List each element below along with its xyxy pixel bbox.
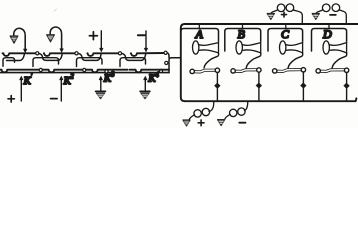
plug tip triangle 1 <box>10 36 18 43</box>
wire row2 contact segment 1 <box>0 70 41 73</box>
contact diamond lever A <box>215 83 221 89</box>
plug A <box>193 41 219 54</box>
cord plug C to lever C <box>288 54 303 68</box>
arrowhead key K2 <box>60 76 63 80</box>
key plug arrow hook 1 <box>14 28 25 49</box>
contact stem lever B <box>258 72 260 101</box>
plug tip triangle 2 <box>47 35 55 42</box>
label plus cell3 <box>89 32 97 40</box>
arrowhead key K3 <box>99 76 102 80</box>
jack frame staple 3 <box>77 58 103 67</box>
generator plus bottom <box>189 101 214 119</box>
wire row1 contact line segment 3 <box>87 53 120 56</box>
svg-text:C: C <box>281 27 290 41</box>
bus tick jack D <box>328 24 330 29</box>
battery arrow top plus <box>267 13 274 19</box>
jack box C <box>268 29 303 52</box>
contact stem lever C <box>302 72 304 101</box>
jack frame staple 1 <box>3 58 15 67</box>
lever D <box>316 68 349 73</box>
jack frame staple 2 <box>33 58 59 67</box>
bus tick jack B <box>242 24 244 29</box>
arrowhead key K4 <box>144 76 147 80</box>
wire right block left vertical <box>181 28 185 101</box>
contact circle row2 terminal 3 <box>105 70 108 73</box>
contact circle row2 terminal 1 <box>39 68 42 71</box>
svg-text:D: D <box>322 27 332 41</box>
key K4 stem arrow <box>144 80 146 92</box>
jack box D <box>312 29 347 52</box>
battery arrow minus cell4 <box>145 31 147 48</box>
bus tick jack C <box>285 24 287 29</box>
wire bottom bus <box>185 98 357 101</box>
cord plug D to lever D <box>332 54 347 68</box>
arrowhead hook 2 <box>60 49 63 53</box>
plug C <box>280 41 303 54</box>
plug D <box>323 41 347 54</box>
label minus bottom <box>239 122 245 124</box>
jack frame staple 4 <box>120 58 146 67</box>
key K3 stem arrow <box>100 80 102 92</box>
generator plus top <box>271 4 302 24</box>
plug B <box>236 41 261 54</box>
bus tick jack A <box>198 24 200 29</box>
svg-text:A: A <box>195 27 204 41</box>
wire row1 end corner into tee <box>167 53 169 58</box>
wire row1 blade 3 <box>78 54 101 61</box>
wire row2 contact segment 4 <box>130 70 169 73</box>
contact stem lever D <box>346 73 348 101</box>
battery arrow plus cell3 <box>100 31 102 48</box>
ground symbol K4 <box>140 90 150 92</box>
contact circle terminal 4 <box>164 51 167 54</box>
node junction circle <box>165 61 168 64</box>
battery arrow bottom minus <box>218 120 225 126</box>
wire row1 blade 2 <box>39 54 62 61</box>
battery arrow top minus <box>312 13 319 19</box>
contact circle terminal 3 <box>118 52 121 55</box>
arrowhead key K1 <box>20 76 23 80</box>
lever C <box>273 68 306 74</box>
wire top bus <box>181 24 358 28</box>
svg-text:4: 4 <box>155 71 159 79</box>
arrowhead cell3 <box>100 48 103 52</box>
contact circle terminal 2 <box>75 52 78 55</box>
label plus top <box>282 12 287 17</box>
contact stem lever A <box>216 73 218 101</box>
stray mark <box>54 9 57 11</box>
arrowhead cell4 <box>144 48 147 52</box>
lever A <box>190 68 220 74</box>
svg-text:B: B <box>238 27 246 41</box>
wire row1 blade 1 <box>7 55 25 61</box>
label plus bottom <box>198 120 204 126</box>
lever B <box>231 68 261 73</box>
wire row1 blade 4 <box>122 54 146 61</box>
generator minus top <box>316 4 346 24</box>
ground symbol K3 <box>96 90 106 92</box>
svg-text:2: 2 <box>70 73 74 81</box>
svg-text:3: 3 <box>110 71 115 79</box>
contact diamond lever B <box>256 83 262 89</box>
generator minus bottom <box>225 101 248 119</box>
label minus cell4 <box>138 34 145 36</box>
label minus K2 <box>51 98 58 100</box>
wire row1 contact line segment 4 <box>131 53 165 56</box>
wire row1 contact line segment 1 <box>3 53 38 56</box>
wire row2 contact segment 3 <box>86 70 127 73</box>
contact circle row2 terminal 2 <box>83 68 86 71</box>
cord plug A to lever A <box>204 54 219 68</box>
jack box B <box>225 29 261 52</box>
wire row2 contact segment 2 <box>43 70 84 73</box>
label plus K1 <box>8 96 14 102</box>
battery arrow bottom plus <box>183 120 190 126</box>
arrowhead hook 1 <box>24 49 27 53</box>
key plug arrow hook 2 <box>50 27 61 48</box>
label minus top <box>330 14 336 16</box>
key K2 stem arrow <box>60 80 62 102</box>
wire row1 contact line segment 2 <box>44 53 77 56</box>
contact circle row2 terminal 4 <box>159 69 162 72</box>
svg-text:′: ′ <box>31 72 33 81</box>
wire row2 lower rail <box>0 72 169 74</box>
node junction tee <box>169 58 181 73</box>
cord plug B to lever B <box>246 54 261 68</box>
jack box A top <box>181 29 219 42</box>
key K1 stem arrow <box>20 80 22 102</box>
contact diamond lever D <box>344 83 350 89</box>
contact diamond lever C <box>301 83 307 89</box>
contact cup circle terminal 1 <box>36 52 39 55</box>
